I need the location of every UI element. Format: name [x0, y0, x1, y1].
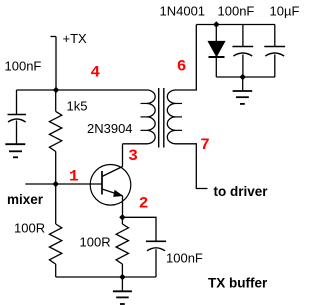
transistor Q1 2N3904 [90, 165, 131, 206]
bottom junction dot [119, 274, 125, 280]
diode D1 1N4001 [209, 25, 225, 78]
resistor R3 100R (emitter) [116, 217, 128, 277]
capacitor C1 100nF top-left [8, 115, 27, 145]
svg-text:1k5: 1k5 [67, 99, 88, 114]
capacitor C4 100nF emitter bypass [146, 241, 166, 277]
resistor R2 100R (left) [49, 184, 61, 277]
wire secondary top to rectifier rail [176, 25, 197, 91]
wire collector up [122, 144, 124, 167]
ground G1 (below C1) [5, 144, 25, 157]
svg-text:TX buffer: TX buffer [208, 276, 268, 291]
+TX supply terminal [51, 37, 57, 91]
capacitor C2 100nF top-right [232, 25, 253, 78]
node junction dot at ground of rectifier [240, 74, 246, 80]
wire top rail from C1 branch to transformer primary [17, 89, 148, 91]
svg-text:1: 1 [69, 167, 79, 185]
svg-text:3: 3 [128, 147, 138, 165]
svg-text:1N4001: 1N4001 [160, 4, 206, 19]
transformer core [159, 88, 164, 148]
svg-text:7: 7 [200, 136, 210, 154]
transformer T1 secondary winding [167, 90, 182, 144]
ground G2 (rectifier) [233, 77, 253, 104]
node 2 junction dot [119, 214, 125, 220]
wire mixer input to base [25, 183, 102, 185]
svg-text:4: 4 [90, 64, 100, 82]
wire secondary bottom to driver [176, 144, 208, 189]
svg-text:to driver: to driver [214, 184, 269, 199]
wire emitter down [122, 196, 124, 218]
svg-text:100R: 100R [80, 235, 111, 250]
svg-text:10µF: 10µF [270, 4, 300, 19]
svg-text:2N3904: 2N3904 [87, 121, 133, 136]
capacitor C3 10uF [264, 25, 285, 78]
svg-text:6: 6 [177, 57, 187, 75]
wire collector to primary bottom [123, 143, 148, 145]
svg-text:2: 2 [139, 195, 149, 213]
svg-text:+TX: +TX [63, 31, 88, 46]
wire rectifier bottom rail [216, 76, 275, 78]
svg-text:100nF: 100nF [5, 59, 42, 74]
wire C1 branch down [16, 90, 18, 115]
svg-text:100R: 100R [14, 221, 45, 236]
ground G3 (bottom) [113, 277, 132, 304]
wire rectifier top rail [196, 24, 275, 26]
transformer T1 primary winding [141, 90, 156, 144]
svg-text:100nF: 100nF [218, 4, 255, 19]
wire bottom rail [56, 276, 156, 278]
wire node 2 to C4 [122, 217, 156, 241]
node 1 junction dot [53, 181, 59, 187]
resistor R1 1k5 [49, 90, 61, 184]
node junction dot at diode anode [213, 21, 219, 27]
svg-text:mixer: mixer [7, 192, 44, 207]
node 4 junction dot [53, 87, 59, 93]
svg-text:100nF: 100nF [166, 251, 203, 266]
